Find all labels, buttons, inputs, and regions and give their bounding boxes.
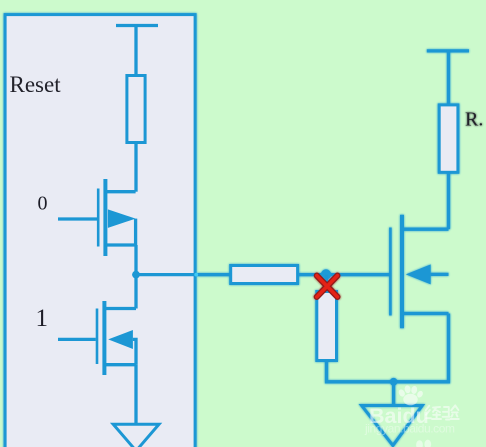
node C junction dot — [390, 378, 398, 386]
wire VDD to R1 — [134, 24, 137, 75]
resistor R3 — [231, 266, 298, 284]
ground left — [113, 424, 159, 447]
wire node C to ground — [392, 382, 395, 406]
svg-text:0: 0 — [38, 193, 48, 215]
wire VDD to R2 — [447, 50, 450, 105]
wire node A to resistor R3 — [136, 273, 230, 276]
resistor R2 — [439, 105, 458, 172]
wire node B to R4 — [325, 275, 328, 292]
node A junction dot — [132, 271, 140, 279]
Reset block panel — [5, 15, 195, 447]
transistor Q1 — [98, 179, 135, 256]
ground right — [362, 406, 423, 446]
transistor Q2 — [97, 301, 136, 375]
wire R1 to Q1 drain — [134, 143, 137, 192]
svg-text:Reset: Reset — [10, 72, 62, 97]
svg-text:R.: R. — [465, 109, 483, 131]
label R. — [465, 109, 483, 131]
wire R3 to Q3 gate — [298, 273, 390, 276]
wire gate input 0 — [58, 217, 97, 220]
node B diamond — [321, 269, 331, 279]
power VDD right — [427, 49, 469, 52]
power VDD left — [116, 24, 158, 27]
red X broken connection — [317, 276, 338, 297]
wire gate input 1 — [58, 338, 96, 341]
transistor Q3 — [390, 215, 448, 328]
label Reset — [10, 72, 62, 97]
wire Q1 source to node A — [134, 245, 137, 309]
wire R4 bottom to Q3 source — [327, 314, 449, 382]
resistor R1 — [127, 76, 145, 143]
label 0 — [38, 193, 48, 215]
watermark Baidu Jingyan — [364, 385, 459, 447]
svg-text:1: 1 — [36, 305, 49, 332]
wire Q2 source to ground — [134, 365, 137, 424]
wire R2 to Q3 drain — [447, 172, 450, 229]
junction highlight at border crossing — [194, 273, 198, 277]
resistor R4 — [317, 292, 337, 361]
svg-text:jingyan.baidu.com: jingyan.baidu.com — [364, 422, 455, 436]
label 1 — [36, 305, 49, 332]
